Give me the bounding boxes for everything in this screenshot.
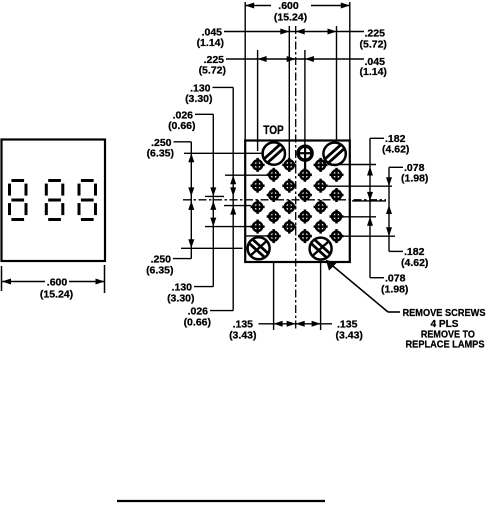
lamp contact col3 row1 bbox=[282, 158, 296, 172]
lamp contact col2 row1 bbox=[267, 168, 281, 182]
lamp contact col5 row4 bbox=[314, 220, 328, 234]
svg-text:(15.24): (15.24) bbox=[274, 12, 307, 24]
lamp contact col4 row4 bbox=[298, 229, 312, 243]
svg-text:(5.72): (5.72) bbox=[360, 39, 387, 51]
extension line col6 bbox=[336, 26, 338, 141]
leader lower center offset bbox=[224, 205, 251, 207]
lamp contact col2 row3 bbox=[267, 210, 281, 224]
.600 top dimension line with arrows bbox=[245, 3, 350, 9]
right leader col6 row3 bbox=[343, 216, 376, 218]
svg-text:4 PLS: 4 PLS bbox=[431, 319, 459, 330]
lamp contact col4 row2 bbox=[298, 188, 312, 202]
dimension line x370 (.182 top / .078 bottom) bbox=[367, 138, 373, 277]
lamp contact col6 row1 bbox=[330, 168, 344, 182]
lamp contact col3 row3 bbox=[282, 200, 296, 214]
.130 (3.30) upper-left label bbox=[185, 83, 233, 106]
rear view right edge extension line bbox=[349, 2, 351, 140]
svg-text:(6.35): (6.35) bbox=[146, 265, 173, 277]
note leader arrow to bottom-right screw bbox=[326, 260, 400, 312]
svg-text:(3.30): (3.30) bbox=[185, 93, 212, 105]
leader col2 row4 bbox=[245, 235, 267, 237]
.026 (0.66) lower-left label bbox=[184, 306, 234, 329]
.250 (6.35) lower-left label bbox=[146, 254, 191, 277]
.078 (1.98) lower-right label bbox=[370, 273, 408, 296]
svg-text:(5.72): (5.72) bbox=[199, 65, 226, 77]
vertical centerline (dash-dot) bbox=[295, 26, 297, 330]
right leader col5 row2 bbox=[327, 185, 392, 187]
svg-text:REMOVE SCREWS: REMOVE SCREWS bbox=[403, 308, 486, 319]
.078 (1.98) upper-right label bbox=[389, 162, 428, 185]
.225 (5.72) top-left label bbox=[199, 54, 226, 77]
note text REMOVE SCREWS 4 PLS REMOVE TO REPLACE LAMPS bbox=[403, 308, 486, 351]
lamp contact col5 row1 bbox=[314, 158, 328, 172]
svg-text:(4.62): (4.62) bbox=[382, 144, 409, 156]
rear view outline square bbox=[245, 141, 350, 263]
bottom extension line col5 bbox=[320, 262, 322, 330]
.135 (3.43) left label bbox=[229, 319, 256, 342]
.182 (4.62) lower-right label bbox=[389, 246, 428, 269]
lamp contact col4 row3 bbox=[298, 210, 312, 224]
bottom extension line col2 bbox=[273, 262, 275, 330]
bottom .135 dimension line with arrows bbox=[259, 321, 333, 327]
dimension line x191 (.250 top/bottom) bbox=[188, 142, 194, 259]
leader top screw row bbox=[184, 152, 263, 154]
svg-text:REPLACE LAMPS: REPLACE LAMPS bbox=[406, 340, 485, 351]
svg-text:(1.98): (1.98) bbox=[381, 284, 408, 296]
svg-text:(1.98): (1.98) bbox=[401, 173, 428, 185]
dimension row line y59 (.225/.045) bbox=[226, 56, 364, 62]
screw bottom-right bbox=[310, 238, 332, 260]
extension line col4 bbox=[304, 50, 306, 146]
dimension line x213 (.026 top / .130 bottom) bbox=[210, 114, 216, 286]
svg-text:(6.35): (6.35) bbox=[147, 148, 174, 160]
right leader center extension bbox=[352, 200, 386, 202]
.026 (0.66) upper-left label bbox=[168, 110, 213, 133]
screw bottom-left bbox=[248, 237, 270, 259]
.045 (1.14) top-right label bbox=[360, 56, 387, 78]
svg-text:(3.30): (3.30) bbox=[167, 293, 194, 305]
svg-text:(4.62): (4.62) bbox=[401, 257, 428, 269]
bottom horizontal rule bbox=[117, 500, 325, 502]
screw top-right bbox=[323, 143, 345, 165]
svg-text:.600: .600 bbox=[278, 0, 299, 12]
rear view left edge extension line bbox=[244, 2, 246, 140]
dimension line x233 (.130 top / .026 bottom) bbox=[230, 87, 236, 310]
leader upper center offset bbox=[205, 195, 224, 197]
lamp contact col2 row2 bbox=[267, 188, 281, 202]
.130 (3.30) lower-left label bbox=[167, 282, 213, 305]
lamp contact col2 row4 bbox=[267, 229, 281, 243]
lamp contact col5 row2 bbox=[314, 179, 328, 193]
svg-text:(1.14): (1.14) bbox=[360, 66, 387, 78]
screw top-left bbox=[263, 142, 285, 164]
lamp contact col6 row3 bbox=[330, 210, 344, 224]
lamp contact col6 row2 bbox=[330, 188, 344, 202]
lamp contact col1 row2 bbox=[251, 179, 265, 193]
front view .600 dimension line with arrows bbox=[2, 279, 105, 285]
.250 (6.35) upper-left label bbox=[147, 137, 192, 160]
7-segment digit 1 bbox=[8, 179, 28, 221]
.182 (4.62) upper-right label bbox=[370, 133, 409, 156]
.135 (3.43) right label bbox=[336, 319, 363, 342]
lamp contact col1 row1 bbox=[251, 158, 265, 172]
lamp contact col4 row1 bbox=[298, 168, 312, 182]
svg-text:.600: .600 bbox=[47, 277, 68, 289]
TOP label bbox=[263, 125, 284, 137]
lamp contact col1 row4 bbox=[251, 220, 265, 234]
front view outline of 3-digit display bbox=[2, 140, 106, 262]
dimension row line y31 (.045/.225) bbox=[224, 29, 364, 35]
rear .600 (15.24) label bbox=[274, 0, 307, 24]
leader bottom screw row bbox=[181, 247, 243, 249]
front view dimension label .600 (15.24) bbox=[40, 277, 73, 301]
dimension line x389 (.078 top / .182 bottom) bbox=[386, 167, 392, 251]
svg-text:(15.24): (15.24) bbox=[40, 289, 73, 301]
svg-text:(3.43): (3.43) bbox=[229, 330, 256, 342]
extension line col3 bbox=[288, 26, 290, 158]
leader col2 row1 bbox=[225, 174, 267, 176]
.225 (5.72) top-right label bbox=[360, 28, 387, 51]
horizontal centerline (dash-dot) bbox=[183, 199, 386, 201]
front view width extension lines bbox=[2, 265, 105, 293]
7-segment digit 3 bbox=[78, 179, 98, 221]
right leader col5 row1 bbox=[328, 164, 376, 166]
svg-text:(3.43): (3.43) bbox=[336, 330, 363, 342]
lamp contact col5 row3 bbox=[314, 200, 328, 214]
extension line col1 bbox=[257, 50, 259, 151]
7-segment digit 2 bbox=[45, 179, 65, 221]
svg-text:TOP: TOP bbox=[263, 125, 284, 137]
lamp contact col6 row4 bbox=[330, 229, 344, 243]
leader col1 row4 bbox=[205, 226, 251, 228]
svg-text:(1.14): (1.14) bbox=[197, 37, 224, 49]
lamp contact col3 row4 bbox=[282, 220, 296, 234]
right leader col6 row4 bbox=[343, 235, 395, 237]
svg-text:(0.66): (0.66) bbox=[168, 120, 195, 132]
large center top contact bbox=[298, 146, 313, 171]
.045 (1.14) top-left label bbox=[197, 27, 224, 50]
svg-text:(0.66): (0.66) bbox=[184, 317, 211, 329]
lamp contact col3 row2 bbox=[282, 179, 296, 193]
lamp contact col1 row3 bbox=[251, 200, 265, 214]
